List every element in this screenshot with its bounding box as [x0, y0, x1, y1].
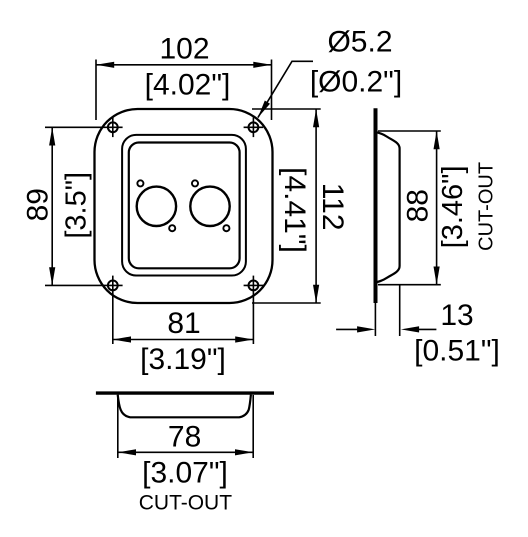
dimension 81 arrows	[113, 336, 131, 342]
svg-text:[3.07"]: [3.07"]	[142, 457, 228, 490]
dimension 112 extension lines	[252, 109, 321, 303]
svg-text:[3.19"]: [3.19"]	[140, 343, 226, 376]
D-hole right	[190, 187, 229, 226]
dimension 81 extension lines	[113, 295, 254, 344]
svg-text:[Ø0.2"]: [Ø0.2"]	[310, 65, 402, 98]
recess rim (outer)	[122, 135, 246, 276]
leader arrowhead	[258, 101, 270, 118]
svg-text:88: 88	[401, 189, 434, 222]
leader line to screw hole	[258, 61, 313, 117]
svg-text:13: 13	[440, 299, 473, 332]
front view plate outline	[95, 109, 273, 303]
dimension 112 arrows	[313, 109, 319, 127]
dimension 102 arrows	[96, 62, 114, 68]
dimension 81 line	[113, 339, 254, 341]
dimension 88 arrows	[434, 131, 440, 149]
svg-text:[3.46"]: [3.46"]	[437, 165, 469, 248]
dimension 78 line	[118, 451, 253, 453]
D-hole right mounting hole top	[192, 180, 198, 186]
dimension 78 arrows	[118, 449, 136, 455]
bottom view plate (edge-on)	[96, 391, 274, 394]
svg-text:[3.5"]: [3.5"]	[60, 172, 92, 239]
D-hole left mounting hole bottom	[169, 225, 175, 231]
dimension 13 extension lines	[375, 286, 399, 337]
svg-text:81: 81	[167, 307, 200, 340]
D-hole left mounting hole top	[137, 180, 143, 186]
dimension 112 line	[315, 109, 317, 303]
side view dish profile	[377, 132, 399, 282]
recess floor edge (inner)	[129, 143, 240, 269]
screw hole bottom-right	[244, 276, 264, 296]
dimension 78 extension lines	[118, 395, 253, 458]
side view flange plate (edge-on)	[374, 108, 378, 303]
dimension 88 line	[436, 131, 438, 285]
dimension 13 arrow left (outside)	[336, 328, 358, 330]
bottom view dish profile	[118, 395, 251, 418]
svg-text:89: 89	[22, 188, 55, 221]
svg-text:102: 102	[159, 33, 209, 66]
svg-text:[4.02"]: [4.02"]	[145, 69, 231, 102]
D-hole right mounting hole bottom	[223, 225, 229, 231]
screw hole bottom-left	[103, 276, 123, 296]
dimension 102 line	[96, 64, 272, 66]
svg-text:112: 112	[316, 183, 349, 231]
dimension 89 line	[51, 127, 53, 285]
dimension 102 extension lines	[96, 60, 272, 121]
dimension 88 extension lines	[378, 131, 441, 285]
svg-text:[0.51"]: [0.51"]	[414, 335, 500, 368]
svg-text:[4.41"]: [4.41"]	[278, 167, 311, 253]
D-hole left	[137, 187, 176, 226]
screw hole top-right	[244, 118, 264, 138]
svg-text:CUT-OUT: CUT-OUT	[139, 492, 232, 515]
dimension 13 arrow right (outside)	[418, 328, 436, 330]
dimension 89 extension lines	[45, 127, 103, 285]
svg-text:Ø5.2: Ø5.2	[327, 26, 392, 59]
screw hole top-left	[103, 118, 123, 138]
svg-text:CUT-OUT: CUT-OUT	[476, 162, 498, 251]
dimension 89 arrows	[49, 127, 55, 145]
svg-text:78: 78	[168, 421, 201, 454]
